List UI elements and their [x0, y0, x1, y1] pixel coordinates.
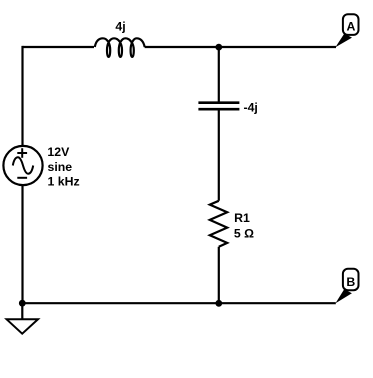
resistor R1 zigzag [210, 201, 227, 247]
voltage source minus sign [17, 177, 27, 179]
wire top horizontal to terminal A [145, 46, 336, 48]
svg-text:12V: 12V [47, 145, 70, 159]
svg-text:A: A [346, 20, 355, 34]
wire middle branch upper [218, 47, 220, 103]
wire left vertical upper segment [21, 46, 23, 146]
svg-text:4j: 4j [115, 19, 125, 33]
capacitor C -4j top plate [198, 101, 239, 104]
svg-text:-4j: -4j [244, 101, 258, 115]
capacitor C -4j bottom plate [198, 108, 239, 111]
svg-text:R1: R1 [234, 211, 250, 225]
wire top-left horizontal segment [23, 46, 95, 48]
wire middle branch lower [218, 247, 220, 303]
wire bottom horizontal to terminal B [23, 302, 336, 304]
node junction dot bottom-left [19, 300, 26, 307]
terminal flag A box [343, 14, 359, 35]
ground stem wire [21, 303, 23, 320]
voltage source plus sign [17, 152, 27, 154]
node junction dot top [215, 44, 222, 51]
terminal A wedge pointer [335, 34, 352, 48]
terminal B wedge pointer [336, 289, 352, 303]
node junction dot middle-bottom [215, 300, 222, 307]
voltage source V1 circle [3, 146, 42, 185]
svg-text:5 Ω: 5 Ω [234, 227, 254, 241]
wire left vertical lower segment [21, 185, 23, 303]
terminal flag B box [343, 269, 359, 290]
ground symbol triangle [7, 319, 38, 333]
svg-text:sine: sine [48, 160, 73, 174]
inductor L 4j [95, 38, 145, 57]
wire middle branch between capacitor and resistor [218, 109, 220, 201]
svg-text:B: B [346, 275, 355, 289]
voltage source sine wave [13, 157, 33, 173]
svg-text:1 kHz: 1 kHz [48, 175, 80, 189]
